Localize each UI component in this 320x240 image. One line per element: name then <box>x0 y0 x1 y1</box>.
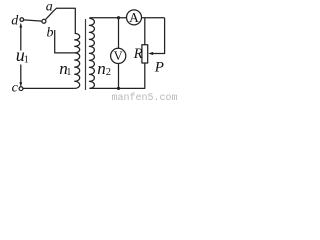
svg-text:2: 2 <box>106 67 111 78</box>
svg-text:P: P <box>154 59 164 75</box>
svg-text:n: n <box>97 59 106 78</box>
svg-text:1: 1 <box>66 67 71 78</box>
svg-text:c: c <box>12 81 19 96</box>
svg-text:R: R <box>133 46 143 62</box>
svg-text:d: d <box>11 14 19 29</box>
svg-text:1: 1 <box>24 55 29 66</box>
svg-text:manfen5.com: manfen5.com <box>112 92 178 102</box>
svg-text:A: A <box>129 10 139 25</box>
svg-text:V: V <box>114 49 123 63</box>
svg-text:a: a <box>46 0 53 14</box>
svg-text:b: b <box>47 26 54 41</box>
